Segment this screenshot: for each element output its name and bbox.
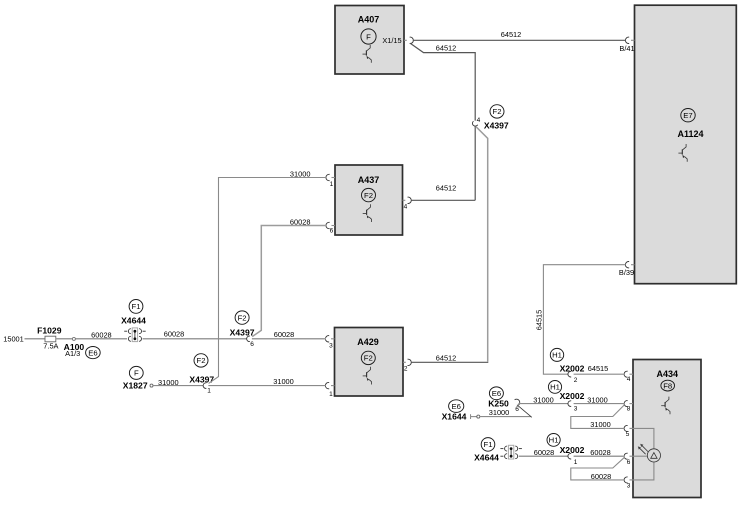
circle F2 (X4397 pin4) [490,105,504,118]
svg-text:A437: A437 [358,175,380,185]
label K250 [488,399,509,409]
label A407 [358,15,380,25]
wire 64512 branch from X1/15 down to connector X4397 pin 4 [410,43,475,120]
label 60028 (left of X4644) [91,330,112,339]
svg-text:4: 4 [627,376,631,383]
svg-text:F: F [366,32,371,41]
svg-text:B/39: B/39 [619,268,634,277]
label A1/3 [65,349,80,358]
label 60028 (right of X4397/6) [274,330,295,339]
svg-text:B/41: B/41 [619,44,634,53]
circle F2 (X4397 pin6) [235,311,249,324]
pin 3 of A429 [325,336,334,350]
wire 60028 from X4644 to X2002 pin 1 [519,455,568,457]
pin X1/15 of A407 [382,36,413,45]
semiconductor symbol A437 [363,204,372,222]
circle F2 (X4397 pin1) [194,354,208,367]
pin 4 of A434 [624,371,633,383]
label F1029 [37,326,62,336]
svg-text:X1644: X1644 [442,412,467,422]
label 7.5A [43,342,58,351]
svg-text:X4397: X4397 [484,120,509,130]
wire 64515 from A1124 B/39 down to X2002 pin 2 [543,265,625,375]
wire 64512 from A437 pin 4 to junction [412,199,476,201]
wire 31000 from X1644 to relay K250 [480,416,531,418]
relay contact K250 [515,399,532,417]
label 31000 (A429 pin1) [273,377,294,386]
svg-text:6: 6 [515,406,519,413]
circle H1 (X2002 pin3) [548,381,561,394]
svg-text:64512: 64512 [436,354,457,363]
circle F1 (X4644 lower) [481,438,495,452]
svg-text:E6: E6 [88,348,97,357]
svg-text:X2002: X2002 [560,364,585,374]
wire end circle X1644 [477,415,480,418]
svg-text:4: 4 [404,204,408,211]
label 31000 (X1827) [158,378,179,387]
svg-text:31000: 31000 [273,377,294,386]
wire 31000 from K250 to X2002 pin 3 [518,403,568,405]
svg-text:1: 1 [207,388,211,395]
svg-text:F2: F2 [493,107,502,116]
label A437 [358,175,380,185]
svg-text:F2: F2 [197,356,206,365]
label A1124 [677,129,703,139]
wire 64512 below connector X4397/4 down to A437 pin 4 junction [474,126,476,200]
svg-text:64512: 64512 [436,43,457,52]
svg-text:E7: E7 [683,111,692,120]
pin 1 of A429 [325,382,334,397]
svg-text:60028: 60028 [91,330,112,339]
label X4397 (pin6) [230,327,255,337]
connector X2002 pin 1 [568,453,578,465]
connector X4397 pin 4 [471,117,480,127]
label 60028 (A434 pin6) [590,448,611,457]
svg-text:1: 1 [329,391,333,398]
svg-text:X1/15: X1/15 [382,36,401,45]
label A429 [357,337,379,347]
label 64515 (vertical) [535,310,544,331]
svg-text:F1: F1 [484,440,493,449]
label 31000 (A437 pin1) [290,170,311,179]
wire 60028 from X4644 to connector X4397 pin 6 [143,338,247,340]
svg-text:F2: F2 [364,354,373,363]
label X4397 (pin1) [189,374,214,384]
circle F1 (X4644 left) [129,300,143,314]
svg-text:1: 1 [330,181,334,188]
light emission arrows of lamp [638,444,648,454]
circle E6 (A100) [86,347,101,359]
wire 60028 bridge loop to A434 pin 3 [571,457,625,480]
connector X4397 pin 1 [203,383,211,395]
internal wire A434 pin5 to lamp [633,428,654,449]
wire 15001 to fuse F1029 [25,338,46,340]
svg-text:X4644: X4644 [474,453,499,463]
svg-text:6: 6 [330,228,334,235]
wire 64515 from X2002/2 to A434 pin 4 [574,373,625,375]
wire 60028 from fuse to X4644 [56,338,127,340]
svg-text:X4397: X4397 [230,327,255,337]
svg-text:F2: F2 [238,313,247,322]
internal wire A434 pin6 to lamp [633,455,648,457]
svg-text:5: 5 [626,431,630,438]
wire 31000 bridge loop to A434 pin 5 [571,405,625,429]
circle H1 (X2002 pin2) [550,348,563,361]
circle E7 (A1124) [681,109,695,122]
circle F8 (A434) [661,380,675,391]
pin 1 of A437 [326,174,335,188]
svg-text:A407: A407 [358,15,380,25]
svg-text:64512: 64512 [436,184,457,193]
circle F2 (A437) [362,188,376,201]
svg-text:3: 3 [627,483,631,490]
circle E6 (K250) [489,387,503,400]
svg-text:60028: 60028 [590,448,611,457]
svg-text:8: 8 [627,405,631,412]
fuse F1029 [45,336,56,342]
svg-text:4: 4 [477,117,481,124]
control unit box A437 [335,165,403,235]
label A434 [657,369,679,379]
pin 6 of A437 [326,222,335,234]
label 64512 (branch) [436,43,457,52]
svg-text:F2: F2 [364,191,373,200]
control unit box A434 [633,360,701,498]
svg-text:H1: H1 [550,383,560,392]
label 31000 (A434 pin5) [590,420,611,429]
svg-text:31000: 31000 [533,396,554,405]
wire 64512 branch to A429 pin 2 [412,127,489,363]
svg-text:60028: 60028 [164,329,185,338]
svg-text:2: 2 [404,366,408,373]
svg-text:60028: 60028 [534,448,555,457]
semiconductor symbol A1124 [678,144,687,162]
svg-text:31000: 31000 [587,395,608,404]
pin 2 of A429 [403,359,411,372]
label X2002 (pin3) [560,391,585,401]
svg-text:A1124: A1124 [677,129,703,139]
svg-text:A429: A429 [357,337,379,347]
pin B/39 of A1124 [619,262,635,277]
label 64512 (A437 pin4) [436,184,457,193]
svg-text:3: 3 [329,342,333,349]
svg-text:H1: H1 [552,351,562,360]
svg-text:H1: H1 [549,436,559,445]
wire 31000 from X1827 to connector X4397 pin 1 [153,385,203,387]
connector X4397 pin 6 [247,336,255,348]
svg-text:60028: 60028 [290,218,311,227]
lamp symbol in A434 [647,449,660,462]
wire 60028 from X2002/1 to A434 pin 6 [574,455,625,457]
svg-text:64515: 64515 [535,310,544,331]
svg-text:A1/3: A1/3 [65,349,80,358]
control unit box A429 [335,328,404,397]
svg-text:6: 6 [627,459,631,466]
svg-text:2: 2 [574,377,578,384]
node A100 [72,337,75,340]
pin 4 of A437 [403,197,412,210]
svg-text:X4644: X4644 [121,315,146,325]
semiconductor symbol A407 [363,45,372,63]
label X1827 [123,380,148,390]
svg-text:31000: 31000 [489,408,510,417]
pin B/41 of A1124 [619,37,634,53]
svg-text:E6: E6 [492,389,501,398]
svg-text:F8: F8 [663,381,672,390]
control unit box A1124 [635,5,737,284]
terminal label 15001 [3,335,24,344]
label 31000 (A434 pin8) [587,395,608,404]
svg-text:31000: 31000 [290,170,311,179]
wire 64512 from A407 X1/15 to A1124 B/41 [413,39,626,41]
label 31000 (X1644) [489,408,510,417]
pin 6 of A434 [624,453,633,466]
control unit box A407 [335,6,404,75]
svg-text:31000: 31000 [590,420,611,429]
connector X4644 (left) symbol [124,328,146,342]
svg-text:F: F [134,369,139,378]
svg-text:60028: 60028 [274,330,295,339]
pin 8 of A434 [624,401,633,413]
circle F2 (A429) [361,351,375,364]
svg-text:3: 3 [574,406,578,413]
internal wire A434 lamp to pin3 [633,462,654,480]
wire 31000 branch from X4397/1 up to A437 pin 1 [209,178,326,384]
label X2002 (pin2) [560,364,585,374]
wire end circle X1827 [150,384,153,387]
svg-text:K250: K250 [488,399,509,409]
svg-text:E6: E6 [451,402,460,411]
svg-text:6: 6 [250,341,254,348]
label 31000 (K250) [533,396,554,405]
svg-text:60028: 60028 [591,472,612,481]
svg-text:7.5A: 7.5A [43,342,58,351]
label 60028 (X4644 lower) [534,448,555,457]
connector X2002 pin 2 [568,371,578,384]
semiconductor symbol A429 [363,367,372,385]
wire end tick X1644 [471,414,477,419]
svg-text:F1029: F1029 [37,326,62,336]
label X1644 [442,412,467,422]
label X4397 (pin4) [484,120,509,130]
circle F (A407) [361,29,376,44]
wire 31000 from X4397/1 to A429 pin 1 [208,385,326,387]
pin 5 of A434 [624,425,633,438]
semiconductor symbol A434 [661,397,670,415]
circle F (X1827) [129,366,143,379]
svg-text:X4397: X4397 [189,374,214,384]
label 60028 (A434 pin3) [591,472,612,481]
connector X2002 pin 3 [568,401,578,413]
label X4644 (left) [121,315,146,325]
wire 60028 from X4397/6 to A429 pin 3 [252,338,326,340]
label 60028 (mid) [164,329,185,338]
svg-text:X2002: X2002 [560,391,585,401]
svg-text:64512: 64512 [501,30,522,39]
svg-text:X1827: X1827 [123,380,148,390]
svg-text:31000: 31000 [158,378,179,387]
label 60028 (A437 pin6) [290,218,311,227]
label A100 [64,342,85,352]
label 64512 (A429 pin2) [436,354,457,363]
svg-text:1: 1 [574,459,578,466]
svg-text:64515: 64515 [588,364,609,373]
circle E6 (X1644) [449,400,464,413]
svg-text:A434: A434 [657,369,679,379]
circle H1 (X2002 pin1) [547,434,560,447]
svg-text:X2002: X2002 [560,445,585,455]
label X2002 (pin1) [560,445,585,455]
pin 3 of A434 [624,477,633,490]
label X4644 (lower) [474,453,499,463]
connector X4644 (lower) symbol [500,445,522,459]
label 64512 (top) [501,30,522,39]
wire 60028 branch from X4397/6 up to A437 pin 6 [252,226,326,337]
label 64515 (horizontal) [588,364,609,373]
svg-text:15001: 15001 [3,335,24,344]
wire 31000 from X2002/3 to A434 pin 8 [574,403,625,405]
svg-text:F1: F1 [132,302,141,311]
